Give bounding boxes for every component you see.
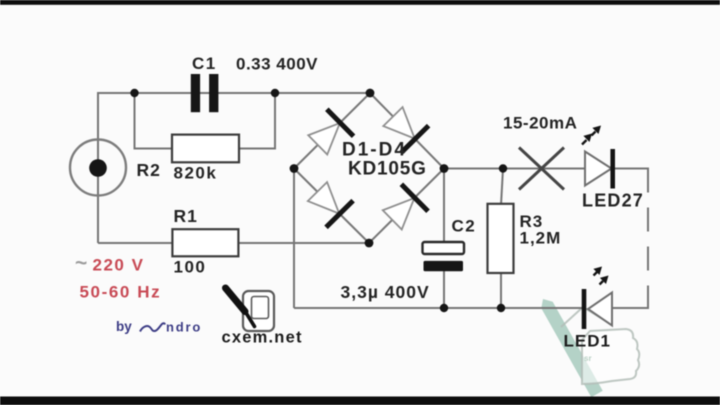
svg-text:820k: 820k (174, 164, 218, 183)
junction C2 bottom (440, 304, 448, 312)
svg-text:C2: C2 (452, 217, 477, 236)
resistor R1 (172, 229, 238, 256)
svg-text:220 V: 220 V (93, 256, 145, 275)
node bridge right (440, 164, 449, 173)
wire: R2 branch right rise (239, 93, 275, 149)
wire: bridge arm bottom-right (369, 169, 444, 244)
junction R3 top (499, 164, 507, 172)
LED27 (582, 126, 613, 189)
wire: vertical through AC source (97, 93, 99, 243)
diode D1 top-left (304, 109, 353, 158)
svg-text:by: by (116, 319, 132, 334)
svg-text:50-60 Hz: 50-60 Hz (80, 283, 162, 302)
LED1 (584, 267, 612, 330)
junction top rail left (130, 89, 138, 97)
wire: bridge arm bottom-left (294, 169, 369, 244)
resistor R3 (488, 204, 514, 273)
node bridge left (290, 164, 299, 173)
capacitor C1 (191, 74, 219, 112)
wire: dashed right edge continuation (647, 169, 649, 309)
signature by Andro (116, 319, 202, 335)
node bridge bottom (365, 239, 374, 248)
wire: bridge arm top-right (370, 93, 444, 169)
diode D4 bottom-right (379, 184, 428, 233)
label mains voltage (75, 252, 161, 302)
capacitor C2 electrolytic (423, 242, 465, 271)
wire: DC plus rail to LED27 (444, 168, 585, 170)
wire: C2 bottom stem (443, 270, 445, 308)
svg-text:100: 100 (174, 258, 207, 277)
cxem.net logo (226, 288, 275, 331)
wire: DC minus drop from left vertex (293, 169, 295, 309)
svg-text:LED27: LED27 (582, 191, 644, 211)
svg-text:D1-D4: D1-D4 (342, 140, 407, 161)
wire: R1 to bridge bottom vertex (239, 242, 370, 244)
wire: LED27 cathode to right edge (613, 168, 649, 170)
wire: C2 top stem (443, 169, 445, 244)
svg-text:15-20mA: 15-20mA (503, 114, 577, 133)
svg-text:1,2M: 1,2M (520, 229, 562, 248)
wire: R2 branch left drop (135, 93, 173, 149)
svg-text:cxem.net: cxem.net (222, 328, 303, 346)
svg-text:LED1: LED1 (564, 332, 611, 351)
break symbol X (omitted LEDs) (519, 148, 564, 190)
wire: bridge arm top-left (294, 93, 370, 169)
svg-text:3,3µ 400V: 3,3µ 400V (341, 282, 430, 302)
svg-text:0.33 400V: 0.33 400V (236, 55, 318, 74)
wire: bottom rail left of LED1 (294, 307, 585, 309)
node bridge top (366, 89, 375, 98)
watermark hand (541, 299, 639, 397)
junction top rail right (271, 89, 279, 97)
diode D2 top-right (379, 103, 428, 152)
svg-text:R1: R1 (174, 206, 198, 226)
svg-text:ndro: ndro (166, 320, 202, 335)
svg-text:C1: C1 (192, 54, 217, 73)
AC source plug (70, 140, 126, 196)
resistor R2 (172, 135, 239, 163)
wire: source to R1 (98, 242, 172, 244)
wire: R3 bottom stem (500, 272, 502, 308)
svg-text:KD105G: KD105G (348, 159, 427, 180)
wire: top rail to bridge top (97, 92, 370, 94)
diode D3 bottom-left (304, 178, 353, 227)
svg-text:R2: R2 (137, 160, 161, 180)
svg-text:~: ~ (75, 252, 87, 275)
wire: bottom rail right of LED1 (612, 307, 649, 309)
wire: R3 top stem (501, 169, 503, 206)
junction R3 bottom (497, 304, 505, 312)
svg-text:sr: sr (584, 354, 592, 363)
